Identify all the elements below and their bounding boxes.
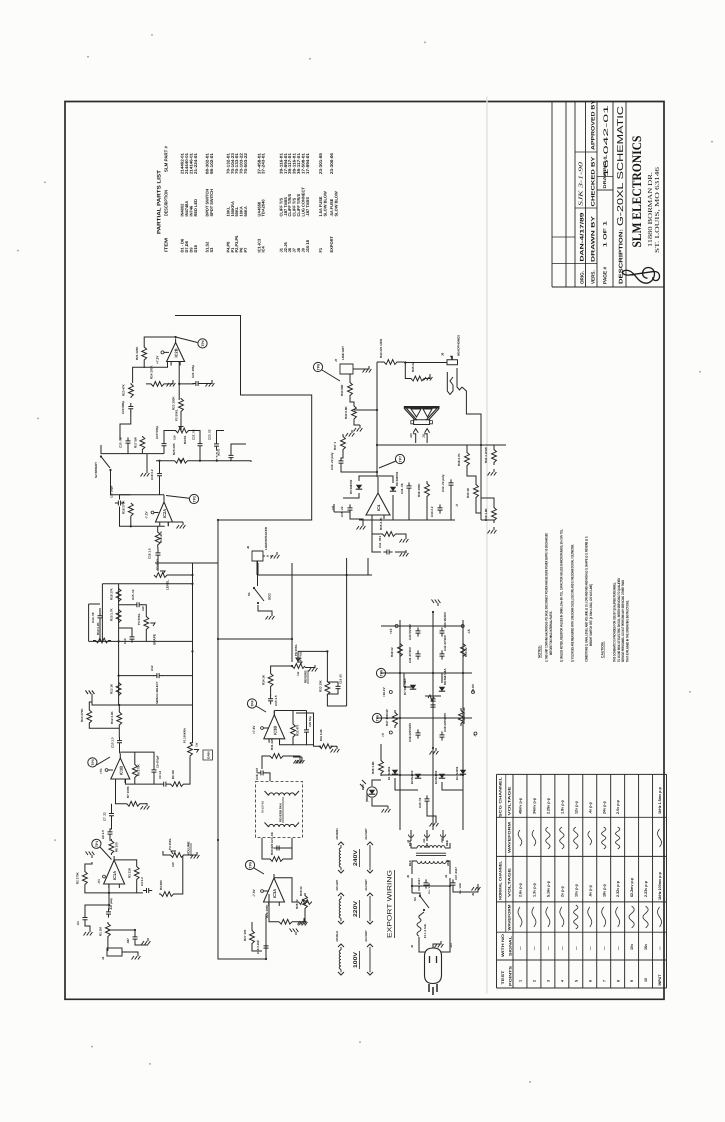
wire reverb drive top [298, 650, 327, 653]
svg-text:C36 .0047: C36 .0047 [417, 878, 421, 891]
capacitor C15 [133, 602, 142, 607]
svg-text:CHECKED BY: CHECKED BY [590, 155, 596, 206]
capacitor C35 [348, 504, 353, 513]
capacitor C8 [152, 766, 157, 775]
wire [284, 756, 300, 757]
resistor R33 [325, 681, 330, 694]
resistor R13 [116, 682, 121, 696]
wire [341, 452, 343, 458]
wire LED arrow [360, 784, 364, 788]
svg-text:.4v p-p: .4v p-p [588, 801, 592, 814]
capacitor C11 [383, 549, 392, 554]
wire [134, 752, 136, 763]
wire [453, 884, 478, 892]
ground [296, 757, 305, 764]
coil 220V [339, 899, 341, 918]
svg-text:TP4: TP4 [201, 340, 205, 346]
wire [372, 798, 388, 806]
wire [404, 686, 413, 688]
svg-text:24v p-p: 24v p-p [602, 800, 606, 814]
wire [107, 938, 109, 951]
underline 240V [359, 849, 361, 867]
wire [270, 688, 272, 696]
ground [299, 919, 308, 926]
ground [346, 430, 355, 437]
svg-text:(RED): (RED) [365, 794, 369, 802]
resistor R28 [279, 919, 292, 924]
wire supply stub [164, 351, 169, 353]
underline VOLUME [190, 843, 192, 856]
svg-text:R15 2.7K: R15 2.7K [110, 607, 114, 621]
wire [122, 952, 138, 953]
wire [85, 905, 109, 915]
wire [109, 891, 143, 894]
wire headphone return [462, 387, 481, 520]
svg-text:R19 47K: R19 47K [159, 530, 163, 543]
wire [381, 774, 463, 776]
wire [167, 522, 169, 526]
svg-text:SJK 3-1-90: SJK 3-1-90 [579, 162, 585, 206]
svg-text:C31 .06: C31 .06 [400, 483, 404, 494]
svg-text:C33 .22 poly: C33 .22 poly [330, 452, 334, 470]
capacitor C13 [130, 633, 135, 642]
svg-text:15v: 15v [644, 943, 648, 950]
svg-text:P7: P7 [243, 247, 248, 253]
svg-text:P8 10KL: P8 10KL [294, 644, 298, 656]
capacitor C14 [98, 612, 103, 621]
resistor R8 [132, 763, 137, 779]
ground [86, 851, 95, 858]
svg-text:2v p-p: 2v p-p [560, 885, 564, 897]
wire to R20 [133, 367, 145, 383]
svg-text:C13: C13 [123, 638, 127, 644]
svg-text:P4 10KL: P4 10KL [168, 838, 172, 850]
svg-text:C44 16/16V: C44 16/16V [443, 612, 447, 628]
wire [261, 838, 263, 848]
wire [157, 526, 159, 531]
capacitor C32 [449, 479, 454, 488]
jack tip mark [450, 356, 452, 359]
wire terminal arrow [367, 842, 373, 845]
wire P2 wiper arrow [179, 426, 184, 429]
svg-text:—: — [602, 946, 606, 950]
wire [377, 717, 472, 719]
wire SCG bus [291, 563, 293, 662]
svg-text:J8: J8 [246, 545, 250, 549]
capacitor C30 [268, 695, 273, 704]
ground [86, 690, 95, 697]
diode D2 [415, 774, 421, 779]
svg-text:C26 2.2uF: C26 2.2uF [256, 940, 260, 954]
capacitor C39 [440, 731, 445, 740]
svg-text:50KA: 50KA [243, 206, 248, 216]
jack contacts [447, 368, 462, 395]
svg-text:DESCRIPTION:: DESCRIPTION: [618, 229, 624, 284]
svg-text:1.3v p-p: 1.3v p-p [533, 882, 537, 897]
svg-text:ITEM: ITEM [164, 238, 169, 253]
svg-text:18v p-p: 18v p-p [602, 883, 606, 897]
wire wiper [150, 623, 155, 626]
wire to TP4 [256, 706, 266, 712]
terminal -7.3V [261, 890, 264, 893]
svg-text:R13 1K: R13 1K [110, 683, 114, 694]
svg-text:C43 50/16V: C43 50/16V [408, 624, 412, 640]
op-amp IC1B [111, 758, 130, 779]
inductor reverb coil 1 [269, 793, 295, 796]
svg-text:P2 50KL: P2 50KL [175, 409, 179, 421]
svg-text:C27 .68: C27 .68 [270, 832, 274, 843]
wire [372, 780, 381, 786]
svg-text:S1: S1 [247, 592, 251, 596]
svg-text:220V: 220V [353, 900, 359, 917]
svg-text:TEST: TEST [501, 969, 505, 984]
wire [400, 534, 406, 536]
wire wiper arrow P8 [296, 651, 300, 661]
capacitor C17 [115, 500, 124, 505]
resistor R24 [146, 381, 169, 386]
wire to TP7 [379, 461, 396, 468]
svg-text:J15 BLU: J15 BLU [335, 931, 339, 942]
ground [382, 806, 391, 813]
svg-text:+15: +15 [389, 628, 393, 634]
svg-text:LEVEL: LEVEL [166, 580, 170, 590]
svg-text:EXPORT WIRING: EXPORT WIRING [387, 870, 394, 938]
svg-text:RED LED: RED LED [193, 199, 198, 217]
svg-text:WAVEFORM: WAVEFORM [508, 904, 512, 930]
svg-text:6: 6 [588, 980, 592, 982]
wire [405, 363, 408, 379]
svg-text:R18 270K: R18 270K [122, 500, 126, 514]
wire [408, 491, 410, 520]
svg-text:11880 BORMAN DR.: 11880 BORMAN DR. [647, 171, 654, 247]
svg-text:C37 .0047: C37 .0047 [454, 867, 458, 880]
svg-text:—: — [533, 946, 537, 950]
svg-text:IC3B: IC3B [272, 726, 277, 735]
resistor R2 [83, 870, 88, 886]
svg-text:1: 1 [519, 980, 523, 982]
wire [89, 603, 100, 605]
capacitor C9 [160, 782, 169, 787]
wire [327, 694, 346, 706]
svg-text:C10 1.0: C10 1.0 [111, 737, 115, 748]
capacitor C3 [106, 908, 111, 917]
inductor reverb coil 2 [269, 824, 295, 827]
wire [380, 744, 382, 758]
ground [357, 523, 366, 530]
resistor R35 [378, 531, 400, 536]
wire tone rail mid [89, 640, 193, 643]
svg-text:PARTIAL PARTS LIST: PARTIAL PARTS LIST [157, 169, 163, 234]
potentiometer P4 VOLUME [169, 852, 185, 857]
capacitor C26 [264, 942, 269, 951]
wire terminal arrow [367, 972, 373, 975]
capacitor C44 [440, 627, 445, 636]
connector arc [409, 834, 414, 837]
resistor R31b [319, 744, 332, 749]
resistor R50 [461, 641, 466, 659]
wire [157, 546, 159, 550]
wire [131, 640, 133, 642]
svg-text:S3: S3 [209, 247, 214, 253]
svg-text:ORIG.: ORIG. [579, 271, 584, 284]
resistor R37 [341, 434, 346, 452]
wire [350, 398, 354, 404]
wire [449, 886, 451, 946]
wire [354, 409, 377, 412]
resistor R12 [117, 711, 122, 726]
wire tone rail 3b [162, 674, 193, 677]
wire [100, 445, 102, 454]
terminal +7.2V [161, 351, 164, 354]
capacitor C38 [416, 729, 421, 738]
wire [353, 366, 369, 369]
svg-text:R14 2.2K: R14 2.2K [96, 621, 100, 635]
wire [142, 605, 147, 615]
svg-text:R40 1K: R40 1K [466, 487, 470, 498]
wire [282, 848, 292, 859]
resistor R1 [106, 922, 111, 938]
svg-text:SCG: SCG [268, 593, 272, 600]
wire [252, 944, 262, 951]
svg-text:—: — [588, 946, 592, 950]
svg-text:-7.3V: -7.3V [252, 888, 256, 897]
svg-text:POINTS: POINTS [508, 965, 512, 986]
wire [140, 802, 147, 805]
wire [306, 711, 308, 728]
resistor R32 [291, 722, 296, 739]
ground [309, 665, 318, 672]
svg-text:J11: J11 [422, 838, 426, 843]
svg-text:J4: J4 [444, 874, 448, 878]
svg-text:R26 22: R26 22 [295, 899, 299, 909]
svg-text:INPUT: INPUT [658, 974, 662, 986]
svg-text:R27 100: R27 100 [243, 929, 247, 941]
wire [168, 521, 183, 523]
fuse F1 [417, 918, 421, 936]
svg-text:BRIGHT SWITCH OFF. [4 Ohm LOAD: BRIGHT SWITCH OFF. [4 Ohm LOAD, 120 VAC … [589, 584, 593, 646]
wire speaker lead [413, 434, 416, 443]
svg-text:D2 IN4002: D2 IN4002 [410, 770, 414, 784]
scan speckles [87, 56, 89, 58]
wire IC2A input node [131, 493, 164, 496]
svg-text:IC2B: IC2B [174, 348, 179, 357]
wire [180, 412, 182, 431]
wire to TP2 [166, 495, 189, 498]
wire [191, 429, 197, 431]
wire terminal arrow [338, 972, 344, 975]
ground [84, 929, 93, 936]
svg-text:R1 1M: R1 1M [99, 927, 103, 936]
op-amp IC3A [264, 878, 285, 902]
LED D10 [369, 790, 375, 795]
svg-text:C32 .22 poly: C32 .22 poly [441, 474, 445, 492]
svg-text:C15 .12: C15 .12 [131, 589, 135, 600]
wire [426, 499, 428, 520]
svg-text:ST. LOUIS, MO 63146: ST. LOUIS, MO 63146 [654, 167, 661, 253]
wire [262, 756, 269, 769]
svg-text:—: — [560, 946, 564, 950]
wire terminal arrow [338, 921, 344, 924]
wire S1 lever [254, 588, 264, 601]
svg-text:APPROVED BY: APPROVED BY [590, 99, 596, 150]
resistor R42 [352, 404, 357, 421]
svg-text:U.L. VDE: U.L. VDE [427, 883, 431, 894]
resistor R19 [155, 531, 160, 546]
capacitor C1 [83, 914, 88, 923]
wire [426, 830, 428, 841]
svg-text:IC4: IC4 [376, 504, 381, 511]
svg-text:BASS: BASS [183, 436, 187, 444]
wire [119, 628, 132, 634]
svg-text:R31 22K: R31 22K [270, 737, 274, 750]
diode D1 [392, 770, 398, 775]
svg-text:R3 22K: R3 22K [128, 867, 132, 878]
wire [395, 778, 418, 791]
wire [293, 735, 307, 745]
svg-text:R33 10K: R33 10K [319, 679, 323, 692]
wire SR zigzag [428, 695, 434, 701]
capacitor C24 [128, 403, 133, 412]
svg-text:R30 820: R30 820 [270, 843, 274, 855]
underline EXPORT WIRING [394, 870, 396, 938]
wire [169, 380, 173, 384]
svg-text:TP2: TP2 [193, 496, 197, 502]
wire [293, 756, 302, 758]
wire [418, 937, 420, 946]
ground [424, 374, 433, 381]
border frame [65, 94, 664, 1007]
wire [167, 574, 193, 577]
svg-text:R23 100K: R23 100K [172, 396, 176, 410]
svg-text:R29 22: R29 22 [299, 886, 303, 896]
svg-text:16-042-01: 16-042-01 [603, 104, 610, 177]
wire [343, 493, 359, 498]
wire [265, 791, 269, 796]
resistor R31 [269, 753, 284, 758]
svg-text:J6: J6 [441, 352, 445, 356]
capacitor C43 [416, 627, 421, 636]
svg-text:DRAWN BY: DRAWN BY [590, 215, 596, 262]
svg-text:S3: S3 [413, 897, 417, 901]
svg-text:R28 100K: R28 100K [265, 904, 269, 918]
svg-text:R6 100: R6 100 [115, 842, 119, 852]
wire to TP4 [176, 337, 198, 343]
svg-text:R47 150/1W: R47 150/1W [385, 709, 389, 726]
svg-text:C12: C12 [150, 665, 154, 671]
resistor R3 [134, 866, 139, 880]
wire speaker lead [424, 434, 427, 443]
svg-text:R50 22: R50 22 [464, 647, 468, 657]
wire [101, 452, 128, 455]
svg-text:C20 500p: C20 500p [155, 426, 159, 439]
wire preamp output loop [175, 314, 312, 564]
svg-text:.6v p-p: .6v p-p [588, 884, 592, 897]
resistor R25 [172, 458, 190, 463]
wire [395, 550, 406, 552]
wire dashed to ground [263, 555, 274, 557]
wire [159, 479, 161, 495]
svg-text:R2 270K: R2 270K [76, 871, 80, 884]
op-amp IC3B [264, 715, 285, 739]
svg-text:RED: RED [445, 840, 449, 846]
capacitor C34 [438, 504, 443, 513]
capacitor C22 [198, 440, 203, 449]
svg-text:C18 .05: C18 .05 [339, 674, 343, 684]
LED circle D10 [367, 787, 377, 798]
svg-text:R32 470: R32 470 [296, 724, 300, 736]
wire bottom rail [359, 519, 455, 521]
svg-text:C38 2200/25V: C38 2200/25V [408, 723, 412, 742]
ground [488, 527, 497, 534]
test point TP7 [395, 454, 404, 463]
svg-text:C14 .06: C14 .06 [91, 612, 95, 623]
wire tone rail 3a [119, 674, 154, 677]
svg-text:R36 100K: R36 100K [417, 483, 421, 497]
resistor R20 [129, 383, 134, 398]
capacitor C36 [424, 879, 429, 888]
test point TP5 [245, 860, 254, 869]
potentiometer P2 BASS [173, 428, 191, 433]
svg-text:R20 47K: R20 47K [122, 383, 126, 396]
ground [86, 690, 95, 697]
wire [426, 843, 428, 848]
wire [412, 893, 420, 896]
wire [153, 775, 155, 784]
speaker flange [404, 406, 440, 410]
svg-text:F1 1 A S.B.: F1 1 A S.B. [423, 923, 427, 938]
ground [132, 953, 141, 960]
wire [307, 745, 322, 747]
svg-text:NORMAL CHANNEL: NORMAL CHANNEL [498, 860, 502, 900]
svg-text:TDA2040: TDA2040 [261, 199, 266, 217]
capacitor C10 [117, 737, 122, 746]
wire [89, 725, 119, 729]
svg-text:.187 TABS: .187 TABS [305, 197, 310, 217]
wire [157, 558, 159, 571]
wire [372, 534, 381, 552]
resistor R38 [465, 450, 470, 468]
svg-text:1kHz 100mv p-p: 1kHz 100mv p-p [658, 871, 662, 900]
wire [403, 673, 405, 687]
wire [141, 450, 143, 454]
terminal +V1 [105, 769, 108, 772]
wire LED arrow [362, 780, 366, 784]
svg-text:C29 50p: C29 50p [308, 716, 312, 727]
svg-text:THAT EXPLAINED IN THE OPERATIN: THAT EXPLAINED IN THE OPERATING INSTRUCT… [625, 600, 629, 662]
test point TP8 [313, 362, 322, 371]
svg-text:C21 100p: C21 100p [191, 365, 195, 378]
svg-text:VOLTAGE: VOLTAGE [508, 867, 512, 897]
wire [231, 444, 246, 453]
resistor R15 [116, 609, 121, 623]
wire S2 lever [101, 456, 110, 468]
wire wiper [160, 571, 165, 574]
svg-text:J9: J9 [471, 892, 475, 896]
svg-text:C16 1.5: C16 1.5 [148, 548, 152, 559]
svg-text:R7 100K: R7 100K [126, 785, 130, 798]
transformer core [416, 852, 446, 855]
wire [131, 516, 165, 527]
wire [256, 561, 258, 575]
svg-text:C8 470pF: C8 470pF [156, 755, 160, 768]
svg-text:-7.2V: -7.2V [145, 510, 149, 519]
svg-text:TP9: TP9 [380, 670, 384, 676]
wire [295, 822, 299, 827]
wire [89, 702, 92, 708]
wire [442, 830, 444, 841]
wire [265, 822, 269, 827]
svg-text:R46 1.8K: R46 1.8K [371, 760, 375, 774]
